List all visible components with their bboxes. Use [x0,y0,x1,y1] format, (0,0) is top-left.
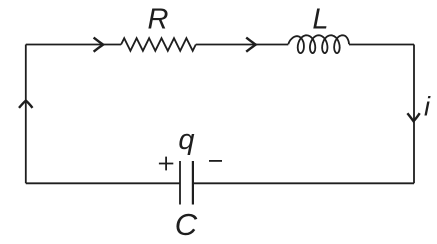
current arrow on top-left wire [94,38,104,52]
svg-text:C: C [175,207,198,239]
svg-text:L: L [312,4,328,36]
current arrow on right wire (downward) [407,113,419,121]
wire: bottom-right horizontal segment [193,182,414,184]
wire: top-left horizontal segment [26,44,121,46]
wire: top-middle horizontal segment [196,44,288,46]
resistor R (zigzag) [121,38,196,51]
current arrow on left wire (upward) [19,101,33,108]
minus sign [209,160,222,162]
svg-text:q: q [178,124,194,156]
wire: bottom-left horizontal segment [26,182,180,184]
svg-text:i: i [424,92,431,122]
wire: top-right horizontal segment [349,44,414,46]
wire: right vertical segment [413,45,415,184]
plus sign [159,157,173,171]
svg-text:R: R [148,3,169,35]
capacitor C right plate [192,161,194,205]
wire: left vertical segment [25,45,27,184]
current arrow on top-middle wire [246,38,256,52]
inductor L (coil) [288,35,349,53]
capacitor C left plate [179,161,181,205]
